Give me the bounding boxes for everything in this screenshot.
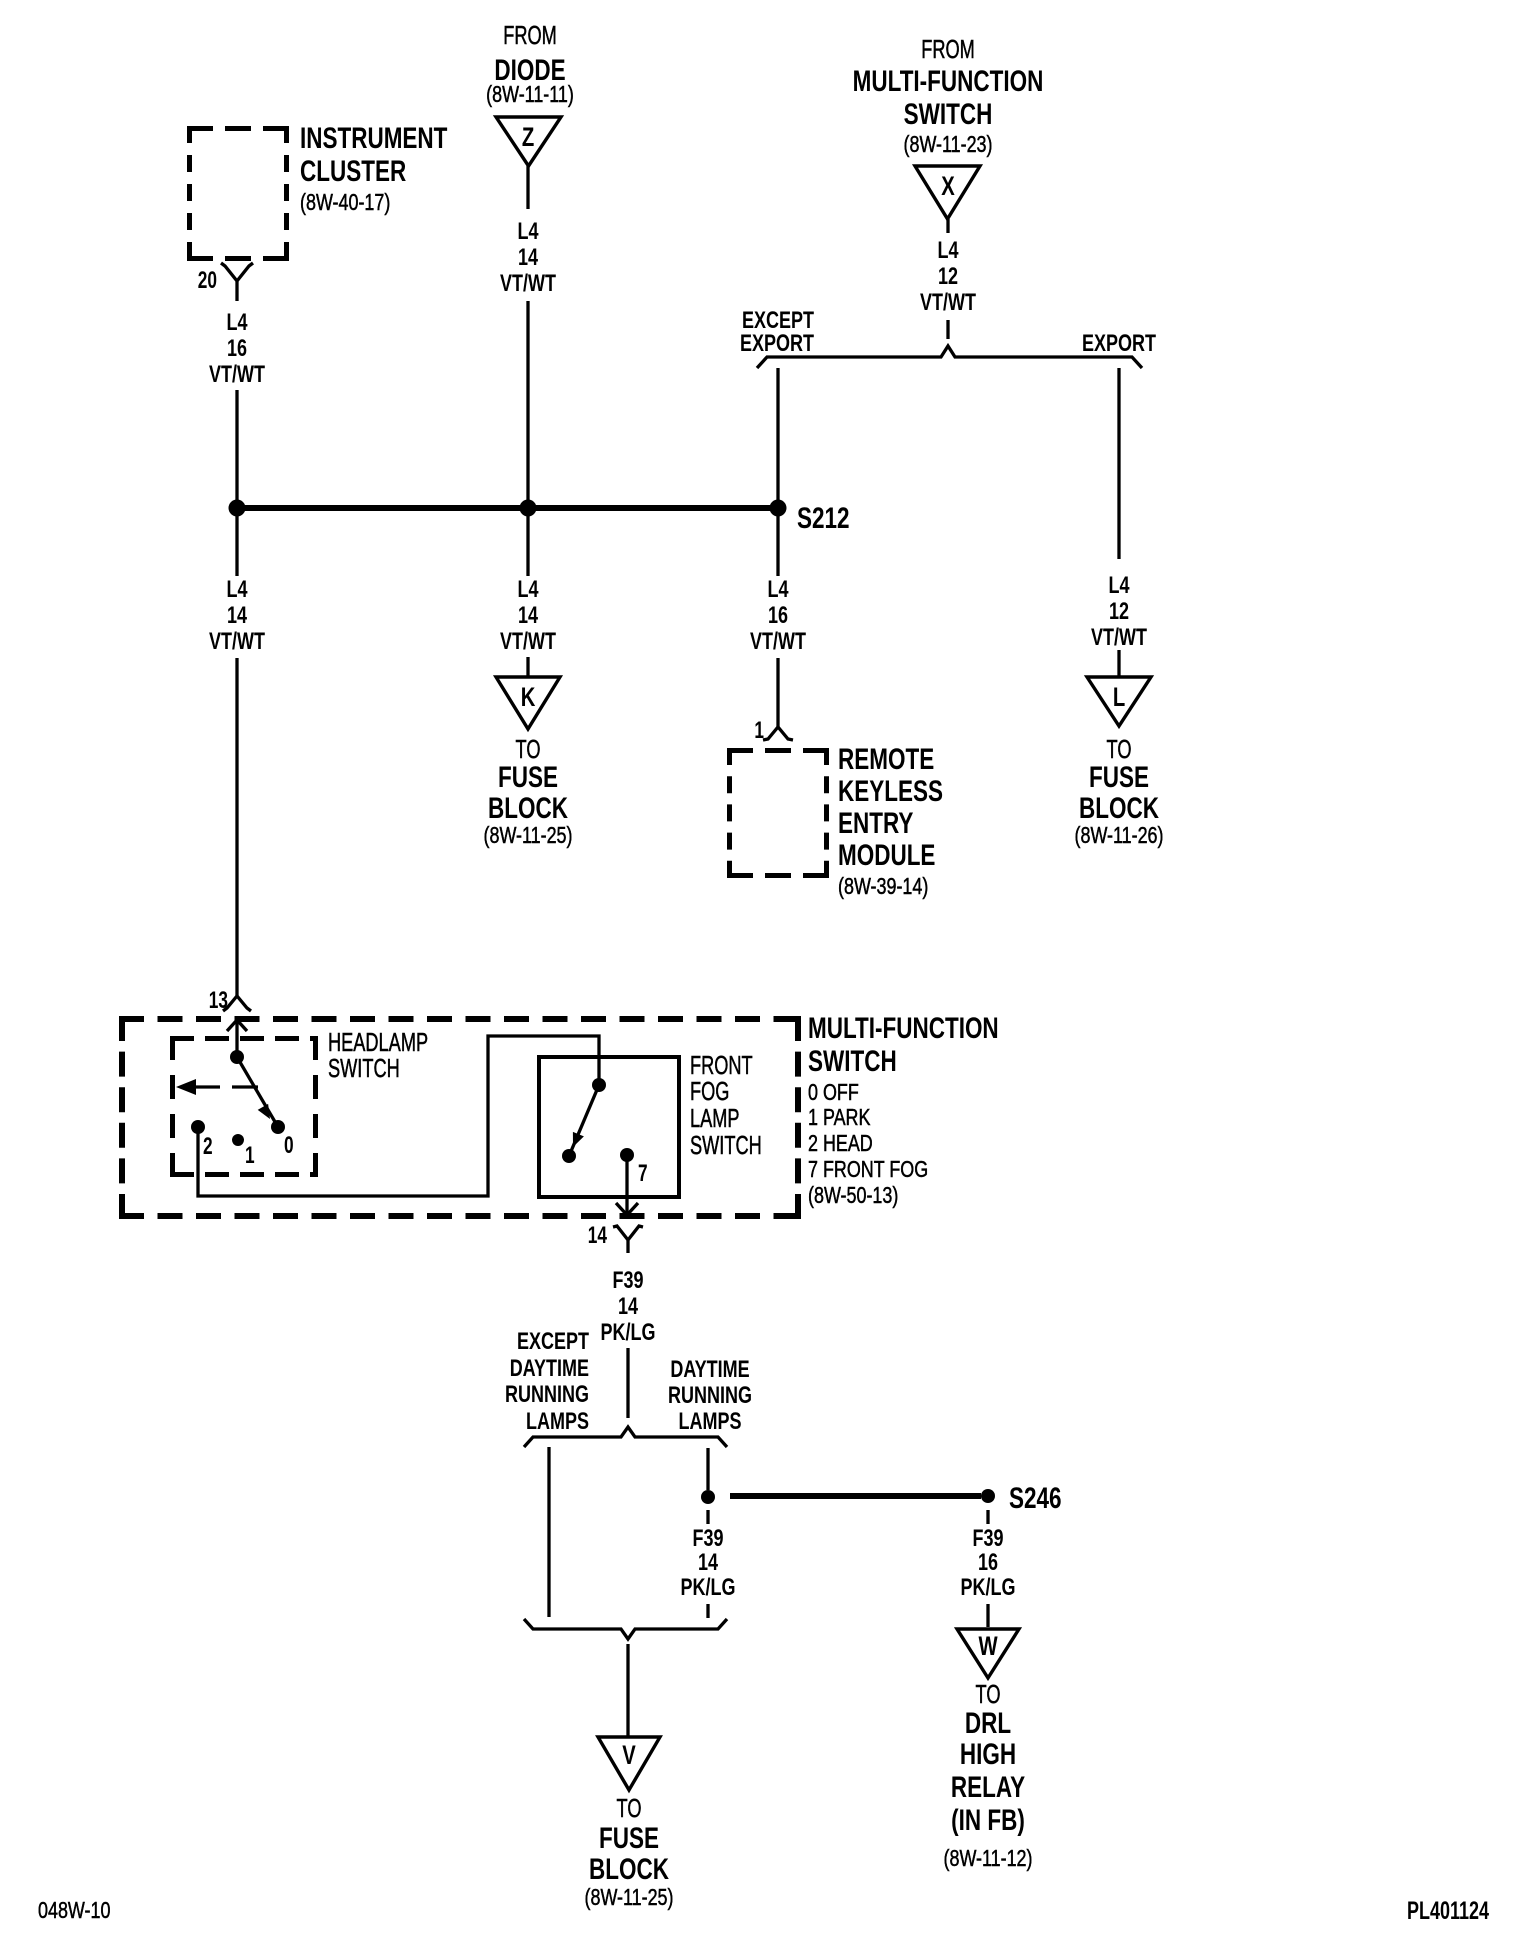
svg-text:L4: L4 (517, 219, 538, 245)
svg-text:VT/WT: VT/WT (209, 362, 265, 388)
svg-text:VT/WT: VT/WT (750, 629, 806, 655)
svg-text:X: X (941, 171, 955, 202)
svg-text:SWITCH: SWITCH (690, 1131, 762, 1160)
svg-text:FUSE: FUSE (498, 760, 558, 794)
svg-text:2: 2 (203, 1133, 213, 1159)
svg-text:FUSE: FUSE (599, 1821, 659, 1855)
svg-text:FRONT: FRONT (690, 1051, 753, 1080)
svg-text:F39: F39 (692, 1526, 723, 1552)
svg-text:HEADLAMP: HEADLAMP (328, 1028, 428, 1057)
svg-text:VT/WT: VT/WT (1091, 625, 1147, 651)
svg-text:CLUSTER: CLUSTER (300, 154, 406, 188)
svg-text:16: 16 (227, 336, 247, 362)
svg-text:F39: F39 (972, 1526, 1003, 1552)
svg-text:L4: L4 (517, 577, 538, 603)
svg-text:BLOCK: BLOCK (1079, 791, 1159, 825)
svg-text:14: 14 (698, 1550, 718, 1576)
svg-text:HIGH: HIGH (960, 1737, 1016, 1771)
svg-text:14: 14 (227, 603, 247, 629)
svg-text:BLOCK: BLOCK (589, 1852, 669, 1886)
svg-text:(8W-11-25): (8W-11-25) (585, 1885, 674, 1911)
svg-text:DRL: DRL (965, 1706, 1011, 1740)
svg-text:L4: L4 (767, 577, 788, 603)
svg-text:L4: L4 (937, 238, 958, 264)
svg-text:FUSE: FUSE (1089, 760, 1149, 794)
svg-text:MULTI-FUNCTION: MULTI-FUNCTION (853, 64, 1044, 98)
svg-text:(8W-11-25): (8W-11-25) (484, 823, 573, 849)
svg-text:FOG: FOG (690, 1077, 729, 1106)
svg-text:VT/WT: VT/WT (500, 271, 556, 297)
svg-text:7: 7 (638, 1160, 648, 1186)
svg-text:W: W (978, 1631, 998, 1662)
svg-text:16: 16 (978, 1550, 998, 1576)
svg-text:(8W-11-11): (8W-11-11) (486, 82, 574, 108)
svg-text:PK/LG: PK/LG (601, 1320, 656, 1346)
svg-text:L4: L4 (1108, 573, 1129, 599)
svg-text:L4: L4 (226, 310, 247, 336)
svg-text:048W-10: 048W-10 (38, 1898, 110, 1924)
svg-text:(8W-11-23): (8W-11-23) (904, 132, 993, 158)
svg-text:VT/WT: VT/WT (920, 290, 976, 316)
svg-text:BLOCK: BLOCK (488, 791, 568, 825)
svg-text:14: 14 (618, 1294, 638, 1320)
svg-text:MULTI-FUNCTION: MULTI-FUNCTION (808, 1011, 999, 1045)
svg-text:REMOTE: REMOTE (838, 742, 934, 776)
svg-text:LAMPS: LAMPS (679, 1409, 742, 1435)
svg-text:16: 16 (768, 603, 788, 629)
svg-text:L4: L4 (226, 577, 247, 603)
svg-text:RELAY: RELAY (951, 1770, 1025, 1804)
svg-text:14: 14 (518, 245, 538, 271)
svg-text:1: 1 (754, 717, 764, 743)
svg-text:2 HEAD: 2 HEAD (808, 1131, 873, 1157)
svg-text:RUNNING: RUNNING (505, 1382, 589, 1408)
svg-text:LAMP: LAMP (690, 1104, 740, 1133)
svg-text:SWITCH: SWITCH (328, 1054, 400, 1083)
svg-text:EXCEPT: EXCEPT (517, 1329, 589, 1355)
svg-text:PK/LG: PK/LG (681, 1575, 736, 1601)
svg-text:1: 1 (245, 1142, 255, 1168)
svg-text:SWITCH: SWITCH (904, 97, 993, 131)
svg-text:14: 14 (518, 603, 538, 629)
svg-text:V: V (622, 1740, 636, 1771)
svg-text:RUNNING: RUNNING (668, 1383, 752, 1409)
svg-text:(8W-39-14): (8W-39-14) (838, 874, 928, 900)
svg-text:(8W-11-12): (8W-11-12) (944, 1846, 1033, 1872)
svg-text:MODULE: MODULE (838, 838, 935, 872)
svg-text:S212: S212 (797, 501, 850, 535)
svg-text:TO: TO (976, 1680, 1001, 1709)
svg-text:DAYTIME: DAYTIME (510, 1356, 589, 1382)
svg-text:FROM: FROM (921, 35, 975, 64)
svg-text:INSTRUMENT: INSTRUMENT (300, 121, 447, 155)
svg-text:12: 12 (938, 264, 958, 290)
svg-text:7 FRONT FOG: 7 FRONT FOG (808, 1157, 928, 1183)
svg-text:20: 20 (198, 267, 217, 293)
svg-text:S246: S246 (1009, 1481, 1062, 1515)
svg-text:12: 12 (1109, 599, 1129, 625)
svg-text:Z: Z (522, 122, 534, 153)
svg-text:FROM: FROM (503, 21, 557, 50)
svg-text:(8W-40-17): (8W-40-17) (300, 190, 390, 216)
svg-text:1 PARK: 1 PARK (808, 1105, 871, 1131)
svg-text:EXPORT: EXPORT (1082, 331, 1156, 357)
svg-text:LAMPS: LAMPS (526, 1409, 589, 1435)
svg-text:0: 0 (284, 1132, 294, 1158)
svg-text:F39: F39 (612, 1268, 643, 1294)
svg-text:ENTRY: ENTRY (838, 806, 914, 840)
svg-text:14: 14 (588, 1222, 608, 1248)
svg-text:KEYLESS: KEYLESS (838, 774, 943, 808)
svg-text:VT/WT: VT/WT (209, 629, 265, 655)
svg-text:(IN FB): (IN FB) (951, 1803, 1025, 1837)
svg-text:SWITCH: SWITCH (808, 1044, 897, 1078)
svg-text:PL401124: PL401124 (1407, 1896, 1489, 1925)
svg-text:(8W-11-26): (8W-11-26) (1075, 823, 1164, 849)
svg-text:TO: TO (617, 1794, 642, 1823)
svg-text:VT/WT: VT/WT (500, 629, 556, 655)
svg-text:L: L (1113, 682, 1125, 713)
svg-text:EXPORT: EXPORT (740, 331, 814, 357)
svg-text:DAYTIME: DAYTIME (670, 1357, 749, 1383)
svg-text:PK/LG: PK/LG (961, 1575, 1016, 1601)
svg-text:0 OFF: 0 OFF (808, 1080, 859, 1106)
svg-text:K: K (521, 682, 536, 713)
svg-text:(8W-50-13): (8W-50-13) (808, 1183, 898, 1209)
